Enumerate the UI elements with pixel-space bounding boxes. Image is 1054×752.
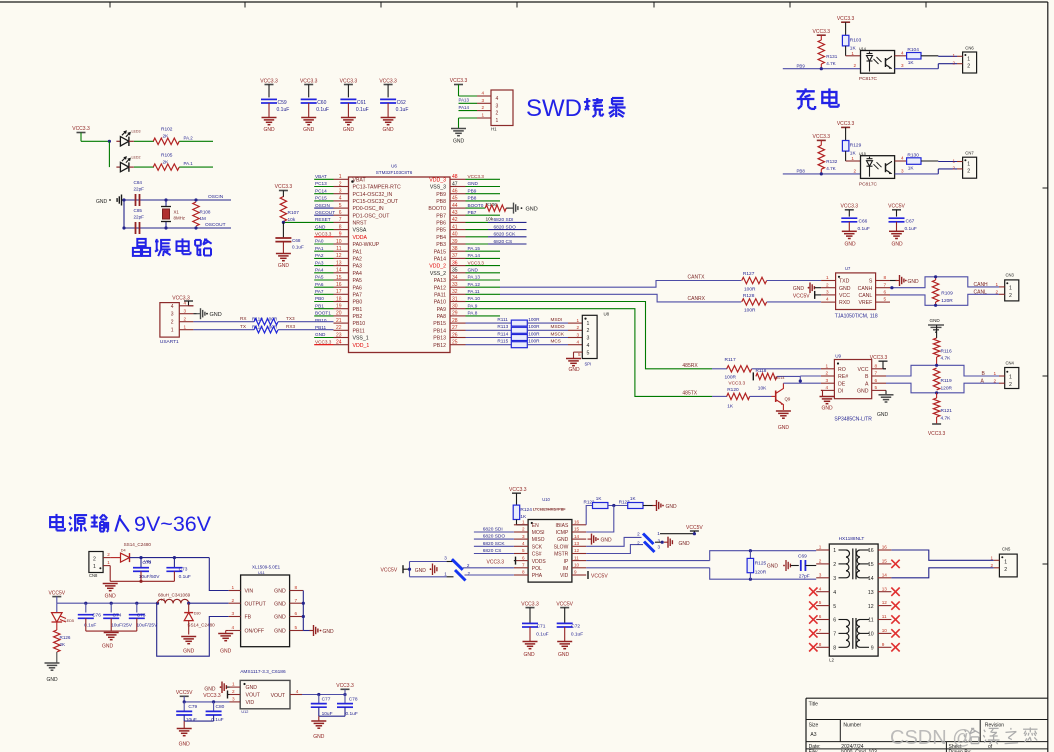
svg-text:4.7K: 4.7K bbox=[826, 61, 836, 66]
svg-text:1: 1 bbox=[851, 156, 854, 161]
resistor R111 bbox=[466, 317, 541, 326]
resistor R124 bbox=[509, 487, 532, 525]
ground bbox=[655, 537, 690, 548]
svg-text:VCC3.3: VCC3.3 bbox=[340, 79, 358, 85]
svg-text:2: 2 bbox=[339, 181, 342, 187]
net label GND bbox=[314, 332, 333, 337]
svg-text:VREF: VREF bbox=[858, 300, 872, 306]
svg-text:2: 2 bbox=[93, 557, 96, 563]
net label 6820 CS bbox=[474, 548, 514, 554]
svg-text:2: 2 bbox=[854, 63, 857, 68]
svg-text:1: 1 bbox=[657, 531, 660, 536]
svg-text:C77: C77 bbox=[322, 697, 331, 703]
svg-text:1: 1 bbox=[826, 363, 829, 368]
svg-text:PA4: PA4 bbox=[315, 268, 324, 273]
svg-text:CN4: CN4 bbox=[1006, 360, 1015, 365]
svg-text:100R: 100R bbox=[528, 331, 540, 336]
svg-text:1: 1 bbox=[819, 545, 822, 550]
svg-text:2: 2 bbox=[232, 598, 235, 603]
svg-text:CANTX: CANTX bbox=[688, 275, 706, 281]
svg-text:19: 19 bbox=[336, 304, 342, 310]
svg-text:PA14: PA14 bbox=[434, 257, 446, 263]
svg-text:CANL: CANL bbox=[974, 290, 988, 296]
wire bbox=[783, 376, 802, 383]
svg-text:34: 34 bbox=[452, 275, 458, 281]
svg-text:XL1509-5.0E1: XL1509-5.0E1 bbox=[252, 565, 281, 570]
svg-text:6820 CS: 6820 CS bbox=[483, 548, 502, 554]
connector CN6 bbox=[953, 45, 977, 73]
svg-text:25: 25 bbox=[452, 340, 458, 346]
resistor R106 bbox=[485, 202, 513, 223]
svg-text:H1: H1 bbox=[491, 127, 497, 132]
net label PA0 bbox=[314, 239, 333, 244]
svg-text:TJA1050T/CM, 118: TJA1050T/CM, 118 bbox=[835, 314, 878, 320]
svg-text:36: 36 bbox=[452, 260, 458, 266]
svg-text:6: 6 bbox=[819, 614, 822, 619]
svg-text:VSS_1: VSS_1 bbox=[353, 336, 369, 342]
svg-text:VSS_2: VSS_2 bbox=[430, 271, 446, 277]
svg-text:PA.13: PA.13 bbox=[468, 275, 481, 280]
wire bbox=[586, 506, 614, 533]
capacitor C69 bbox=[798, 553, 816, 579]
svg-text:PA.15: PA.15 bbox=[468, 246, 481, 251]
svg-text:PB11: PB11 bbox=[353, 328, 365, 334]
svg-text:16: 16 bbox=[336, 282, 342, 288]
svg-text:PB0: PB0 bbox=[315, 296, 324, 301]
svg-text:ICMP: ICMP bbox=[556, 530, 569, 536]
svg-text:485RX: 485RX bbox=[682, 363, 698, 369]
svg-text:VCC3.3: VCC3.3 bbox=[813, 29, 831, 35]
svg-text:4: 4 bbox=[496, 96, 499, 102]
svg-text:4: 4 bbox=[232, 625, 235, 630]
svg-text:PA.9: PA.9 bbox=[468, 303, 478, 308]
net label PC14 bbox=[314, 188, 333, 193]
ground bbox=[451, 129, 466, 145]
svg-text:PA9: PA9 bbox=[437, 307, 447, 313]
svg-text:4.7K: 4.7K bbox=[941, 415, 952, 421]
capacitor C79 bbox=[176, 702, 197, 723]
svg-text:1: 1 bbox=[107, 560, 110, 565]
svg-text:8: 8 bbox=[522, 570, 525, 575]
resistor R126 bbox=[54, 622, 71, 663]
svg-text:1: 1 bbox=[1009, 285, 1012, 291]
svg-text:4: 4 bbox=[826, 297, 829, 302]
svg-text:8: 8 bbox=[884, 275, 887, 280]
net label PA2 bbox=[314, 253, 333, 258]
capacitor C72 bbox=[556, 601, 583, 641]
svg-text:VCC3.3: VCC3.3 bbox=[509, 487, 527, 493]
ground bbox=[103, 584, 118, 600]
svg-text:4: 4 bbox=[522, 541, 525, 546]
svg-text:GND: GND bbox=[278, 263, 290, 269]
svg-text:VCC5V: VCC5V bbox=[686, 525, 703, 531]
net label GND bbox=[314, 224, 333, 229]
capacitor C67 bbox=[888, 204, 917, 233]
svg-text:VCC3.3: VCC3.3 bbox=[521, 601, 539, 607]
svg-text:13: 13 bbox=[336, 260, 342, 266]
connector CN3 bbox=[999, 273, 1019, 301]
svg-text:DE: DE bbox=[838, 381, 846, 387]
svg-text:12: 12 bbox=[868, 604, 874, 610]
svg-text:Title: Title bbox=[809, 701, 818, 707]
svg-text:C62: C62 bbox=[397, 100, 406, 106]
svg-text:PHA: PHA bbox=[532, 573, 543, 579]
svg-text:6820 CS: 6820 CS bbox=[494, 239, 513, 245]
svg-text:C60: C60 bbox=[317, 100, 326, 106]
svg-text:46: 46 bbox=[452, 189, 458, 195]
svg-text:GND: GND bbox=[778, 425, 790, 431]
svg-text:43: 43 bbox=[452, 210, 458, 216]
svg-text:GND: GND bbox=[46, 677, 58, 683]
svg-text:1: 1 bbox=[996, 282, 999, 287]
svg-text:120R: 120R bbox=[941, 298, 953, 304]
resistor R105 bbox=[153, 152, 179, 170]
svg-text:PA0: PA0 bbox=[315, 239, 324, 244]
diode D30 SS14 bbox=[184, 603, 215, 634]
svg-text:R115: R115 bbox=[497, 339, 508, 344]
net label RESET bbox=[315, 217, 331, 222]
svg-text:1: 1 bbox=[826, 275, 829, 280]
capacitor C61 bbox=[340, 99, 368, 117]
svg-text:5: 5 bbox=[819, 600, 822, 605]
wire bbox=[189, 602, 229, 604]
svg-text:U10: U10 bbox=[542, 497, 550, 502]
svg-text:A3: A3 bbox=[810, 732, 816, 738]
net label PB1 bbox=[314, 303, 333, 308]
svg-text:4: 4 bbox=[296, 689, 299, 694]
wire 485RX route bbox=[466, 302, 713, 369]
svg-text:4.7K: 4.7K bbox=[826, 166, 836, 171]
svg-text:PC14: PC14 bbox=[315, 188, 327, 193]
svg-text:U15: U15 bbox=[859, 152, 866, 156]
svg-text:38: 38 bbox=[452, 246, 458, 252]
wire bbox=[921, 55, 957, 58]
svg-text:4.7K: 4.7K bbox=[941, 356, 952, 362]
svg-text:2: 2 bbox=[184, 317, 187, 322]
svg-text:PB3: PB3 bbox=[436, 242, 446, 248]
svg-text:PA6: PA6 bbox=[353, 285, 363, 291]
svg-text:GND: GND bbox=[179, 742, 191, 748]
wire CANRX route bbox=[500, 294, 741, 302]
svg-text:GND: GND bbox=[844, 241, 856, 247]
svg-text:6820 SCK: 6820 SCK bbox=[483, 541, 506, 547]
svg-text:PB9: PB9 bbox=[436, 192, 446, 198]
power VCC3.3 bbox=[870, 355, 888, 369]
resistor R122 bbox=[584, 496, 608, 525]
svg-text:VCC3.3: VCC3.3 bbox=[72, 126, 90, 132]
resistor R130 1K bbox=[895, 152, 921, 171]
svg-text:R108: R108 bbox=[200, 210, 211, 215]
net label PA1 bbox=[314, 246, 333, 251]
net label CANRX bbox=[688, 296, 706, 302]
capacitor C75 bbox=[129, 603, 158, 631]
svg-text:L2: L2 bbox=[829, 658, 834, 663]
svg-text:9: 9 bbox=[882, 642, 885, 647]
svg-text:6: 6 bbox=[875, 378, 878, 383]
svg-text:33: 33 bbox=[452, 282, 458, 288]
svg-text:17: 17 bbox=[336, 289, 342, 295]
wire bbox=[586, 545, 643, 554]
svg-text:SLOW: SLOW bbox=[554, 544, 569, 550]
power VCC3.3 bbox=[837, 121, 855, 140]
svg-text:PB1: PB1 bbox=[353, 307, 363, 313]
net label 485RX bbox=[682, 363, 698, 369]
svg-text:R131: R131 bbox=[826, 54, 837, 59]
svg-text:7: 7 bbox=[875, 371, 878, 376]
resistor R119 bbox=[933, 364, 952, 395]
svg-text:485TX: 485TX bbox=[682, 390, 697, 396]
svg-text:CN6: CN6 bbox=[965, 45, 974, 50]
power VCC3.3 bbox=[813, 29, 831, 35]
svg-text:GND: GND bbox=[908, 279, 920, 285]
svg-text:U7: U7 bbox=[845, 266, 851, 271]
wire bbox=[184, 721, 213, 728]
net label PA3 bbox=[314, 260, 333, 265]
ground bbox=[588, 534, 613, 545]
svg-text:TXD: TXD bbox=[839, 279, 850, 285]
net label PA.13 bbox=[466, 275, 501, 280]
svg-text:R109: R109 bbox=[941, 291, 953, 297]
svg-text:3: 3 bbox=[587, 336, 590, 342]
svg-text:R119: R119 bbox=[941, 378, 952, 384]
svg-text:CN7: CN7 bbox=[965, 151, 974, 156]
svg-text:2: 2 bbox=[232, 689, 235, 694]
svg-text:3: 3 bbox=[184, 309, 187, 314]
svg-text:PA8: PA8 bbox=[437, 314, 447, 320]
svg-text:0.1uF: 0.1uF bbox=[277, 107, 290, 113]
net label PA4 bbox=[314, 268, 333, 273]
wire bbox=[179, 166, 213, 168]
LED LED3 bbox=[116, 130, 140, 147]
power VCC3.3 bbox=[172, 296, 193, 306]
wire PB net bbox=[783, 172, 861, 175]
svg-text:PA7: PA7 bbox=[353, 292, 363, 298]
svg-text:MOSI: MOSI bbox=[532, 530, 545, 536]
capacitor C66 bbox=[841, 204, 870, 233]
node bbox=[282, 221, 285, 224]
svg-text:PA.8: PA.8 bbox=[468, 311, 478, 316]
power VCC3.3 bbox=[728, 372, 753, 386]
svg-text:LED3: LED3 bbox=[132, 130, 141, 134]
svg-text:VCC5V: VCC5V bbox=[48, 590, 65, 596]
svg-text:4: 4 bbox=[901, 156, 904, 161]
svg-text:9: 9 bbox=[339, 232, 342, 238]
svg-text:C74: C74 bbox=[113, 613, 122, 619]
svg-text:5: 5 bbox=[833, 604, 836, 610]
capacitor C70 bbox=[133, 558, 160, 582]
svg-text:16: 16 bbox=[882, 545, 888, 550]
svg-text:PA1: PA1 bbox=[315, 246, 324, 251]
resistor R131 4.7K bbox=[818, 35, 838, 68]
wire bbox=[134, 140, 154, 142]
svg-text:VDDA: VDDA bbox=[353, 235, 368, 241]
svg-text:PA12: PA12 bbox=[434, 285, 446, 291]
svg-text:1: 1 bbox=[967, 162, 970, 168]
net label GND bbox=[466, 181, 501, 186]
svg-text:PA11: PA11 bbox=[434, 292, 446, 298]
svg-text:CANH: CANH bbox=[858, 286, 873, 292]
node bbox=[164, 198, 167, 229]
svg-text:C80: C80 bbox=[216, 704, 225, 710]
svg-text:4: 4 bbox=[184, 301, 187, 306]
svg-text:R116: R116 bbox=[941, 349, 952, 355]
svg-text:MSDO: MSDO bbox=[551, 324, 565, 329]
net label OSCOUT bbox=[205, 222, 226, 228]
net label PA7 bbox=[314, 289, 333, 294]
svg-text:28: 28 bbox=[452, 318, 458, 324]
svg-text:1: 1 bbox=[577, 318, 580, 323]
ic U10 LTC6820 bbox=[514, 497, 586, 582]
svg-text:TX: TX bbox=[240, 324, 247, 329]
svg-text:GND: GND bbox=[601, 537, 613, 543]
svg-text:PB15: PB15 bbox=[433, 321, 446, 327]
svg-text:6: 6 bbox=[339, 210, 342, 216]
svg-text:GND: GND bbox=[323, 629, 335, 635]
svg-text:6820 SDI: 6820 SDI bbox=[483, 527, 503, 533]
svg-text:VCC3.3: VCC3.3 bbox=[468, 260, 485, 265]
svg-text:4: 4 bbox=[833, 590, 836, 596]
wire bbox=[283, 221, 333, 223]
caption 充电 bbox=[796, 88, 838, 109]
svg-text:1: 1 bbox=[171, 328, 174, 334]
svg-text:1K: 1K bbox=[727, 404, 734, 410]
svg-text:9V~36V: 9V~36V bbox=[134, 512, 212, 536]
connector CN5 bbox=[991, 547, 1018, 577]
svg-text:PA.10: PA.10 bbox=[468, 296, 481, 301]
svg-text:GND: GND bbox=[877, 412, 889, 418]
svg-text:VBAT: VBAT bbox=[315, 174, 327, 179]
svg-text:1: 1 bbox=[994, 371, 997, 376]
svg-text:ON/OFF: ON/OFF bbox=[245, 629, 265, 635]
svg-text:8: 8 bbox=[819, 642, 822, 647]
svg-text:VCC3.3: VCC3.3 bbox=[837, 16, 855, 22]
svg-text:18: 18 bbox=[336, 296, 342, 302]
svg-text:1: 1 bbox=[1004, 560, 1007, 566]
svg-text:22pF: 22pF bbox=[134, 215, 145, 220]
transformer L2 HX1188NLT bbox=[809, 536, 900, 663]
svg-text:IM: IM bbox=[563, 566, 569, 572]
svg-text:5: 5 bbox=[587, 350, 590, 356]
net label PB9 bbox=[466, 188, 501, 193]
svg-text:VCC3.3: VCC3.3 bbox=[379, 79, 397, 85]
svg-text:VID: VID bbox=[246, 700, 255, 706]
svg-text:1: 1 bbox=[851, 51, 854, 56]
svg-text:C75: C75 bbox=[137, 613, 146, 619]
svg-text:VSS_3: VSS_3 bbox=[430, 185, 446, 191]
svg-text:SCK: SCK bbox=[532, 544, 543, 550]
svg-text:BOOT0: BOOT0 bbox=[468, 203, 484, 208]
svg-text:CANRX: CANRX bbox=[688, 296, 706, 302]
svg-text:C61: C61 bbox=[357, 100, 366, 106]
wire bbox=[586, 537, 641, 546]
svg-text:PD0-OSC_IN: PD0-OSC_IN bbox=[353, 206, 384, 212]
svg-text:4: 4 bbox=[819, 586, 822, 591]
svg-text:PB5: PB5 bbox=[436, 228, 446, 234]
svg-text:120R: 120R bbox=[755, 570, 767, 576]
svg-text:CN3: CN3 bbox=[1006, 273, 1015, 278]
svg-text:GND: GND bbox=[315, 332, 326, 337]
svg-text:15: 15 bbox=[336, 275, 342, 281]
svg-text:C67: C67 bbox=[906, 219, 915, 225]
svg-text:5: 5 bbox=[295, 625, 298, 630]
svg-text:VCC: VCC bbox=[858, 367, 869, 373]
net label VCC3.3 bbox=[314, 232, 333, 237]
svg-text:4: 4 bbox=[587, 343, 590, 349]
svg-text:R124: R124 bbox=[520, 507, 532, 513]
net label CANL bbox=[974, 290, 999, 296]
svg-text:U12: U12 bbox=[241, 710, 248, 714]
svg-text:VCC5V: VCC5V bbox=[793, 293, 810, 299]
svg-text:1: 1 bbox=[444, 571, 447, 576]
resistor R121 bbox=[933, 393, 952, 424]
svg-text:GND: GND bbox=[767, 564, 779, 570]
svg-text:0.1uF: 0.1uF bbox=[316, 107, 329, 113]
svg-text:GND: GND bbox=[102, 644, 114, 650]
svg-text:100R: 100R bbox=[528, 339, 540, 344]
net label 6820 SDI bbox=[466, 217, 527, 223]
svg-text:47: 47 bbox=[452, 181, 458, 187]
svg-text:SPI: SPI bbox=[585, 362, 592, 367]
svg-text:PB8: PB8 bbox=[436, 199, 446, 205]
ic U6 STM32F103C8T6 bbox=[349, 164, 451, 353]
svg-text:1K: 1K bbox=[630, 496, 637, 501]
ground bbox=[102, 633, 119, 650]
svg-text:3: 3 bbox=[339, 189, 342, 195]
svg-text:GND: GND bbox=[246, 685, 258, 691]
net label PA.14 bbox=[466, 253, 501, 258]
svg-text:9: 9 bbox=[574, 570, 577, 575]
svg-text:16: 16 bbox=[574, 520, 580, 525]
capacitor C84 bbox=[134, 180, 145, 206]
wire bbox=[81, 140, 109, 142]
power VCC3.3 bbox=[300, 79, 318, 98]
ground bbox=[381, 118, 396, 134]
svg-text:VCC3.3: VCC3.3 bbox=[315, 339, 332, 344]
svg-text:1: 1 bbox=[232, 682, 235, 687]
svg-text:PA3: PA3 bbox=[353, 264, 363, 270]
svg-text:GND: GND bbox=[303, 127, 315, 133]
svg-text:Q9: Q9 bbox=[785, 397, 791, 402]
svg-text:4: 4 bbox=[577, 340, 580, 345]
svg-text:PA6: PA6 bbox=[315, 282, 324, 287]
net label PA.11 bbox=[466, 289, 501, 294]
svg-text:3: 3 bbox=[482, 98, 485, 103]
svg-text:1: 1 bbox=[482, 113, 485, 118]
svg-text:10: 10 bbox=[882, 628, 888, 633]
svg-text:0.1uF: 0.1uF bbox=[905, 226, 917, 232]
svg-text:GND: GND bbox=[105, 594, 117, 600]
svg-text:0.1uF: 0.1uF bbox=[536, 632, 548, 638]
svg-text:5: 5 bbox=[884, 297, 887, 302]
svg-text:40: 40 bbox=[452, 232, 458, 238]
optocoupler U15 PC817C bbox=[859, 152, 895, 187]
wire OSCIN rail bbox=[124, 199, 231, 201]
caption 电源输入9V~36V bbox=[50, 512, 212, 536]
svg-text:13: 13 bbox=[574, 541, 580, 546]
svg-text:7: 7 bbox=[819, 628, 822, 633]
svg-text:26: 26 bbox=[452, 332, 458, 338]
svg-text:U14: U14 bbox=[859, 47, 866, 51]
svg-text:3: 3 bbox=[522, 534, 525, 539]
resistor R110 bbox=[193, 316, 333, 325]
svg-text:POL: POL bbox=[532, 566, 542, 572]
svg-text:29: 29 bbox=[452, 311, 458, 317]
svg-text:VID: VID bbox=[560, 573, 569, 579]
svg-text:GND: GND bbox=[274, 601, 286, 607]
ground bbox=[262, 118, 277, 134]
svg-text:0.1uF: 0.1uF bbox=[571, 632, 583, 638]
power VCC3.3 bbox=[72, 126, 90, 141]
